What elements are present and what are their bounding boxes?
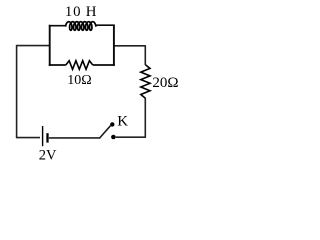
inductor L1 10H (coil) xyxy=(66,22,96,31)
wire: parallel box left vertical xyxy=(49,25,51,66)
svg-text:20Ω: 20Ω xyxy=(152,75,178,91)
resistor R2 20ohm (vertical zigzag) xyxy=(141,65,150,99)
wire: battery to switch xyxy=(49,137,100,139)
wire: left vertical rail xyxy=(16,45,18,138)
battery 2V: long plate xyxy=(42,126,44,146)
wire: top branch right lead from inductor xyxy=(96,24,115,26)
battery 2V: short thick plate xyxy=(46,133,48,142)
switch K: upper contact dot xyxy=(110,122,114,126)
wire: input horizontal from left rail to parallel box xyxy=(17,45,50,47)
wire: output horizontal from parallel box to right rail xyxy=(114,45,146,47)
svg-text:K: K xyxy=(117,113,128,129)
switch K: lever arm xyxy=(99,126,110,139)
wire: top branch left lead to inductor xyxy=(49,25,66,27)
svg-text:2V: 2V xyxy=(39,147,57,163)
wire: bottom from left rail to battery xyxy=(16,137,40,139)
wire: bottom branch left lead to 10ohm resistor xyxy=(49,64,66,66)
svg-text:10Ω: 10Ω xyxy=(67,73,91,88)
wire: bottom branch right lead from 10ohm resistor xyxy=(93,64,115,66)
switch K: lower contact dot xyxy=(111,135,116,140)
wire: parallel box right vertical xyxy=(113,25,115,66)
wire: switch to bottom-right corner xyxy=(116,136,146,138)
svg-text:10 H: 10 H xyxy=(65,4,97,20)
wire: right vertical above 20ohm resistor xyxy=(144,46,146,65)
resistor R1 10ohm (horizontal zigzag) xyxy=(66,61,93,70)
wire: right vertical below 20ohm resistor xyxy=(144,98,146,138)
